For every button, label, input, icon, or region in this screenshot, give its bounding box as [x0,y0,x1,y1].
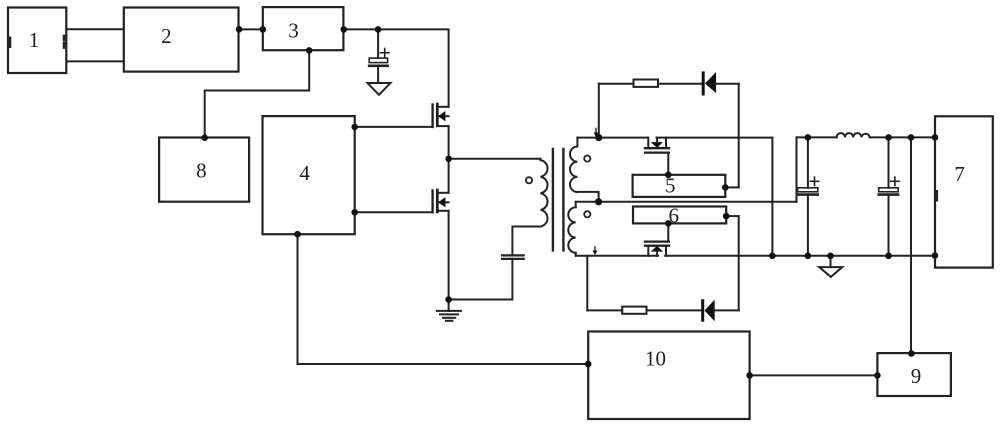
svg-text:6: 6 [668,204,679,228]
svg-text:2: 2 [161,24,172,48]
svg-text:8: 8 [196,159,207,183]
svg-text:5: 5 [665,173,676,197]
svg-text:10: 10 [645,347,666,371]
svg-text:4: 4 [299,161,310,185]
svg-text:1: 1 [29,28,40,52]
svg-text:3: 3 [288,19,299,43]
svg-text:9: 9 [911,364,922,388]
svg-text:7: 7 [954,162,965,186]
